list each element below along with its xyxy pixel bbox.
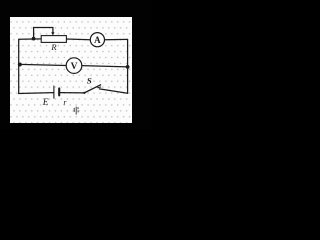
switch right contact tick xyxy=(98,86,101,89)
node junction left (voltmeter tap) xyxy=(18,63,22,67)
wire top-right (ammeter to corner) xyxy=(105,38,128,40)
wire right vertical xyxy=(127,40,129,94)
rheostat slider arrowhead xyxy=(51,32,54,35)
wire top-left (resistor to corner) xyxy=(19,38,41,40)
wire middle-left (node to voltmeter) xyxy=(19,64,66,65)
wire bottom-left (corner to battery) xyxy=(19,92,54,95)
svg-text:R: R xyxy=(50,42,57,52)
wire switch to bottom-right corner xyxy=(99,89,127,93)
node junction right (voltmeter tap) xyxy=(126,65,130,69)
svg-text:A: A xyxy=(94,35,101,45)
wire resistor to ammeter xyxy=(66,38,90,41)
wire middle-right (voltmeter to node) xyxy=(82,66,128,67)
switch S pivot xyxy=(83,92,85,94)
wire left vertical xyxy=(18,39,20,93)
svg-text:V: V xyxy=(71,62,78,72)
voltmeter U=V xyxy=(66,58,82,74)
paper xyxy=(10,17,132,123)
battery long plate (E) xyxy=(53,86,55,98)
black surround xyxy=(0,0,151,129)
resistor R (rheostat body) xyxy=(41,36,66,43)
ammeter U=A xyxy=(90,33,104,47)
svg-text:E: E xyxy=(42,98,49,108)
wire battery to switch xyxy=(60,92,84,94)
rheostat slider arm xyxy=(34,28,53,39)
switch S blade xyxy=(84,85,100,93)
svg-text:S: S xyxy=(87,75,92,85)
battery short thick plate xyxy=(58,88,60,95)
caption mark (tiny 甲 glyph drawn with strokes) xyxy=(74,107,78,114)
node junction top (slider tap) xyxy=(32,37,36,41)
